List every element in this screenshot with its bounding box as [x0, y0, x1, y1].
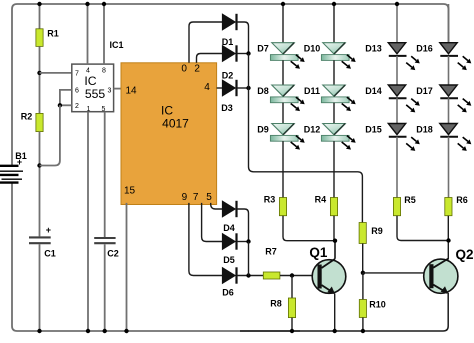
svg-text:D13: D13 — [365, 44, 382, 54]
svg-text:D16: D16 — [416, 44, 433, 54]
node: C2 ground junction — [103, 329, 107, 333]
LED D10 — [321, 43, 355, 69]
wire: R3 bottom to collector node — [283, 216, 335, 241]
svg-text:3: 3 — [108, 88, 112, 95]
wire: 4017 pin5 down to D4 anode — [211, 203, 223, 209]
node: R1 rail junction — [37, 2, 41, 6]
wire: R8 to ground rail — [291, 318, 293, 331]
LED D7 — [270, 43, 304, 69]
svg-text:4: 4 — [86, 67, 90, 74]
svg-text:6: 6 — [75, 88, 79, 95]
svg-text:D4: D4 — [223, 223, 235, 233]
wire: R7 to Q1 base — [280, 275, 318, 277]
resistor R8 — [288, 298, 295, 318]
svg-text:C2: C2 — [107, 248, 119, 258]
wire: below D10 — [333, 60, 335, 85]
svg-text:Q1: Q1 — [309, 245, 328, 260]
resistor R6 — [445, 198, 452, 216]
LED D13 — [388, 43, 420, 70]
wire: D1 cathode to bus corner — [236, 22, 248, 54]
wire: below D17 — [448, 98, 450, 123]
wire: bottom ground rail right part up to Q2 emitter — [240, 293, 448, 331]
svg-text:IC1: IC1 — [109, 40, 123, 50]
svg-text:D11: D11 — [304, 86, 320, 96]
wire: 4017 pin2 up to D2 anode — [197, 54, 223, 63]
wire: R10 to ground rail — [362, 318, 364, 332]
wire: pin7 tap to 555 — [40, 72, 73, 74]
node: D7 column rail junction — [281, 2, 285, 6]
wire: below D18 — [448, 137, 450, 198]
resistor R1 — [36, 29, 43, 47]
node: R8 ground junction — [290, 329, 294, 333]
svg-text:R9: R9 — [371, 226, 383, 236]
node: R7/R8/base junction — [290, 273, 294, 277]
svg-text:R4: R4 — [315, 194, 327, 204]
LED D11 — [321, 85, 355, 111]
capacitor C1 — [29, 237, 51, 243]
wire: top V+ rail from left wire to right corner — [12, 4, 449, 166]
LED D16 — [440, 43, 472, 70]
transistor Q1 — [312, 260, 346, 294]
wire: R1 bottom to R2 top — [39, 46, 41, 113]
svg-text:0: 0 — [181, 64, 187, 75]
wire: R2 bottom to C1 — [39, 132, 41, 237]
wire: below D15 — [396, 137, 398, 198]
svg-text:R3: R3 — [264, 194, 276, 204]
node: pin8 rail junction — [102, 2, 106, 6]
svg-text:+: + — [46, 225, 51, 235]
wire: below D14 — [396, 98, 398, 123]
label IC 4017 — [161, 104, 189, 131]
LED D15 — [388, 124, 420, 151]
svg-text:R5: R5 — [404, 195, 416, 205]
wire: C1 bottom to ground rail — [39, 244, 41, 331]
node: junction R1/R2/pin7 — [37, 71, 41, 75]
node: D5 bus junction — [246, 239, 250, 243]
capacitor C2 — [94, 238, 115, 243]
wire: V+ rail down to D7 — [282, 4, 284, 43]
wire: base node to Q2 base — [363, 272, 430, 274]
LED D18 — [440, 124, 472, 151]
svg-text:R2: R2 — [21, 112, 33, 122]
wire: Q1 collector up to R3/R4 node — [334, 241, 336, 259]
wire: below D9 — [282, 141, 284, 197]
wire: junction down to R8 — [291, 276, 293, 299]
wire: below D8 — [282, 103, 284, 124]
diode D3 — [222, 80, 235, 96]
svg-text:D2: D2 — [222, 71, 234, 81]
diode D6 — [222, 268, 235, 284]
wire: 4017 pin0 up to D1 anode — [189, 22, 223, 63]
wire: 4017 pin9 down to D6 anode — [189, 203, 223, 276]
svg-text:R8: R8 — [270, 299, 282, 309]
svg-text:2: 2 — [194, 64, 200, 75]
svg-text:D8: D8 — [257, 86, 269, 96]
wire: 4017 pin7 down to D5 anode — [202, 203, 223, 242]
diode D2 — [222, 46, 235, 62]
node: D10 column rail junction — [332, 2, 336, 6]
node: junction R2/C1/pins2-6 wire — [37, 163, 41, 167]
svg-text:D18: D18 — [416, 124, 433, 134]
node: pin15 ground junction — [124, 329, 128, 333]
resistor R9 — [359, 223, 366, 244]
wire: below D7 — [282, 60, 284, 85]
wire: 4017 pin15 to ground rail — [126, 203, 128, 331]
node: D3 bus junction — [246, 86, 250, 90]
node: pin1 ground junction — [86, 329, 90, 333]
node: R10 ground junction — [361, 329, 365, 333]
wire: D6 cathode to bus and right to R7 — [236, 275, 263, 277]
wire: 555 pin6 left and down — [60, 90, 72, 105]
svg-text:D7: D7 — [257, 44, 269, 54]
svg-text:15: 15 — [124, 186, 136, 197]
wire: 555 pin2 left — [60, 104, 72, 106]
LED D14 — [388, 85, 420, 112]
node: R9/R10/Q2 base junction — [361, 271, 365, 275]
wire: R1-R2-C1 vertical chain at x=39.5 — [39, 4, 41, 29]
op-amp/timer IC 555 body — [72, 64, 114, 112]
svg-text:R7: R7 — [265, 247, 277, 257]
resistor R2 — [36, 113, 43, 131]
node: Q1 emitter ground junction — [333, 329, 337, 333]
svg-text:D3: D3 — [221, 103, 233, 113]
svg-text:Q2: Q2 — [455, 247, 473, 262]
wire: R6 bottom down to Q2 collector — [447, 216, 449, 260]
svg-text:D12: D12 — [304, 124, 321, 134]
resistor R7 — [263, 272, 280, 279]
svg-text:D9: D9 — [257, 124, 269, 134]
svg-text:IC: IC — [161, 104, 173, 118]
svg-text:2: 2 — [75, 103, 79, 110]
svg-text:C1: C1 — [44, 248, 56, 258]
IC 4017 body — [121, 63, 217, 205]
wire: V+ rail down to D10 — [333, 4, 335, 43]
diode D1 — [222, 14, 235, 30]
wire: below D12 — [333, 141, 335, 197]
wire: D3 cathode to bus — [236, 87, 248, 89]
wire: left battery negative wire down to bottom rail — [12, 183, 300, 331]
wire: R4 bottom down to collector node — [334, 216, 335, 259]
svg-text:8: 8 — [102, 67, 106, 74]
diode D5 — [222, 234, 235, 250]
svg-text:5: 5 — [206, 192, 212, 203]
svg-text:D5: D5 — [223, 255, 235, 265]
node: C1 ground junction — [37, 329, 41, 333]
wire: D4-D6 cathode bus — [248, 242, 250, 276]
wire: below D11 — [333, 103, 335, 124]
wire: 555 pin8 to V+ rail — [103, 4, 105, 64]
wire: D5 cathode to bus — [236, 241, 248, 243]
wire: V+ rail down to D13 — [396, 4, 398, 43]
wire: V+ rail down to D16 — [448, 4, 450, 43]
diode D4 — [222, 201, 235, 217]
resistor R5 — [393, 198, 400, 216]
svg-text:R10: R10 — [369, 300, 386, 310]
wire: D1-D3 cathode bus down across to R9 — [249, 54, 363, 223]
node: pin4 rail junction — [85, 2, 89, 6]
svg-text:R6: R6 — [456, 195, 468, 205]
wire: below D16 — [448, 56, 450, 85]
svg-text:+: + — [17, 157, 22, 167]
wire: Q1 emitter down to ground — [334, 294, 336, 332]
resistor R10 — [359, 300, 366, 318]
wire: R9 bottom to base node — [362, 244, 364, 273]
wire: below D13 — [396, 56, 398, 85]
node: pin2/pin6 junction — [58, 103, 62, 107]
wire: 4017 pin4 to D3 anode — [217, 87, 223, 89]
wire: 555 pin3 to 4017 pin14 — [114, 88, 121, 90]
svg-text:9: 9 — [182, 192, 188, 203]
svg-text:4017: 4017 — [162, 117, 189, 131]
svg-text:7: 7 — [193, 192, 199, 203]
svg-text:7: 7 — [75, 70, 79, 77]
svg-text:R1: R1 — [47, 29, 59, 39]
wire: base node down to R10 — [362, 273, 364, 300]
node: D6 bus junction — [246, 273, 250, 277]
svg-text:14: 14 — [125, 85, 137, 96]
svg-text:D15: D15 — [365, 124, 382, 134]
wire: 555 pin1 to ground rail — [87, 112, 89, 331]
LED D9 — [270, 124, 304, 150]
wire: pins 2-6 down to R2/C1 node — [40, 105, 60, 165]
label IC 555 — [84, 74, 105, 101]
svg-text:555: 555 — [85, 87, 106, 101]
wire: D4 cathode to bus corner — [236, 209, 248, 242]
wire: R5 bottom to Q2 collector node — [397, 216, 449, 241]
svg-text:D17: D17 — [416, 86, 433, 96]
wire: 555 pin5 down to C2 — [104, 112, 106, 237]
wire: D2 cathode to bus — [236, 53, 248, 55]
LED D8 — [270, 85, 304, 111]
svg-text:D10: D10 — [304, 44, 321, 54]
battery B1 — [0, 166, 23, 183]
node: R3/R4/collector junction — [333, 239, 337, 243]
LED D17 — [440, 85, 472, 112]
wire: 555 pin4 to V+ rail — [87, 4, 89, 64]
resistor R3 — [279, 198, 286, 216]
svg-text:4: 4 — [204, 82, 210, 93]
svg-text:D14: D14 — [365, 86, 382, 96]
node: D2 bus junction — [246, 51, 250, 55]
node: R5/R6/Q2 collector junction — [446, 238, 450, 242]
node: D13 column rail junction — [395, 2, 399, 6]
resistor R4 — [330, 198, 337, 216]
LED D12 — [321, 124, 355, 150]
svg-text:D6: D6 — [222, 288, 234, 298]
wire: C2 bottom to ground rail — [104, 244, 106, 331]
transistor Q2 — [424, 259, 458, 293]
svg-text:D1: D1 — [222, 37, 234, 47]
